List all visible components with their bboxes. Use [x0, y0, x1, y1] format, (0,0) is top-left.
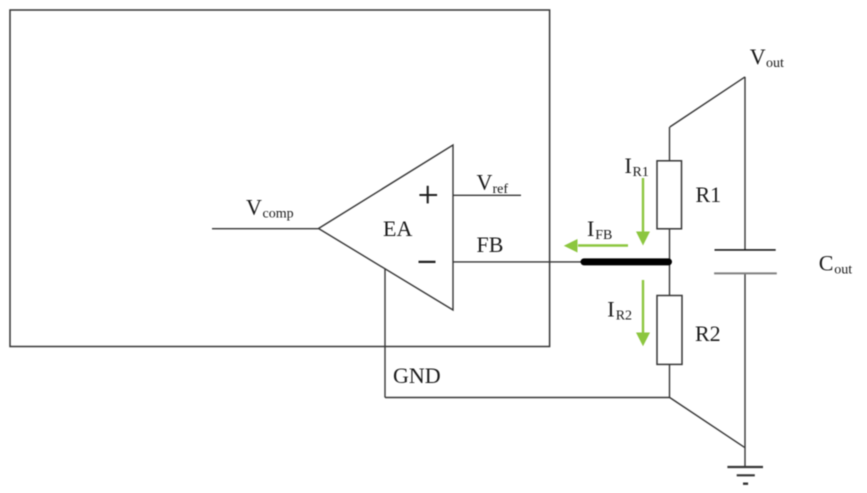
svg-text:ref: ref: [493, 182, 509, 197]
svg-text:out: out: [834, 263, 852, 278]
svg-text:GND: GND: [393, 363, 441, 388]
svg-text:FB: FB: [477, 232, 504, 257]
svg-text:V: V: [246, 194, 262, 219]
svg-text:I: I: [587, 216, 594, 241]
svg-text:comp: comp: [263, 207, 294, 222]
svg-text:FB: FB: [595, 228, 612, 243]
svg-text:C: C: [819, 250, 834, 275]
svg-text:EA: EA: [383, 216, 412, 241]
svg-text:V: V: [750, 44, 766, 69]
svg-text:I: I: [607, 296, 614, 321]
svg-text:I: I: [625, 153, 632, 178]
svg-text:R1: R1: [696, 182, 722, 207]
svg-text:R2: R2: [695, 321, 721, 346]
svg-text:out: out: [766, 56, 784, 71]
svg-text:V: V: [477, 170, 493, 195]
svg-text:R1: R1: [633, 165, 649, 180]
svg-text:R2: R2: [616, 309, 632, 324]
